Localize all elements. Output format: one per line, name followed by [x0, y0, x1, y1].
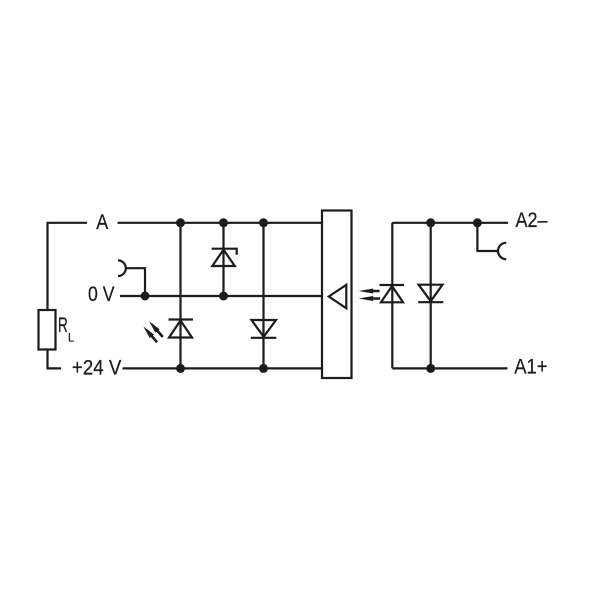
node A label: [96, 211, 108, 234]
svg-text:0 V: 0 V: [88, 283, 115, 306]
wire middle vertical (diode D4): [430, 223, 432, 369]
LED D1 (indicator) cathode bar: [169, 318, 194, 320]
LED D3 triangle: [381, 286, 403, 302]
junction dots A line: [141, 218, 269, 373]
light arrow upper into U1: [359, 289, 380, 294]
diode D4 triangle: [419, 285, 443, 302]
optocoupler box U1: [322, 211, 352, 379]
junction dots right: [426, 218, 482, 373]
wire coil stub from A2-: [477, 223, 498, 251]
svg-text:R: R: [58, 314, 68, 337]
LED D1 triangle: [169, 321, 192, 338]
diode D2 triangle: [252, 320, 277, 337]
zener diode Z1 bar with hook: [212, 249, 237, 255]
wire A line to coupler box: [118, 222, 323, 224]
wire 0V line to coupler box: [120, 295, 322, 297]
wire left vertical of relay input: [391, 223, 393, 369]
svg-text:A1+: A1+: [514, 356, 547, 379]
wire resistor to +24V corner: [48, 350, 62, 369]
zener diode Z1 triangle: [212, 250, 235, 266]
wire vertical branch 1 (LED branch): [179, 223, 181, 369]
resistor RL box: [39, 310, 56, 350]
node A1+ label: [514, 356, 547, 379]
svg-text:A2–: A2–: [516, 209, 548, 232]
svg-text:L: L: [68, 331, 74, 345]
wire A top-left horizontal + left vertical drop: [48, 223, 88, 310]
LED D1 emission arrow lower: [143, 326, 157, 342]
light arrow lower into U1: [359, 296, 381, 301]
diode D2 cathode bar: [251, 337, 276, 339]
wire vertical branch 2 (zener branch): [222, 223, 224, 296]
node A2- label: [516, 209, 548, 232]
LED D3 cathode bar: [380, 284, 405, 286]
wire +24V line to coupler box: [123, 367, 323, 369]
diode D4 cathode bar: [418, 301, 443, 303]
coil half-circle: [498, 243, 506, 259]
wire from tap to 0V line: [126, 268, 145, 296]
node 0 V label: [88, 283, 115, 306]
svg-text:+24 V: +24 V: [72, 357, 121, 380]
node +24 V label: [72, 357, 121, 380]
amplifier triangle in U1: [329, 285, 347, 309]
wire A2- top line: [392, 222, 508, 224]
wire A1+ bottom line: [392, 367, 507, 369]
LED D1 emission arrow upper: [149, 321, 163, 337]
svg-text:A: A: [96, 211, 108, 234]
tap half-circle at 0V: [118, 260, 126, 276]
wire vertical branch 3 (freewheel diode): [262, 223, 264, 369]
resistor RL label: [58, 314, 74, 345]
